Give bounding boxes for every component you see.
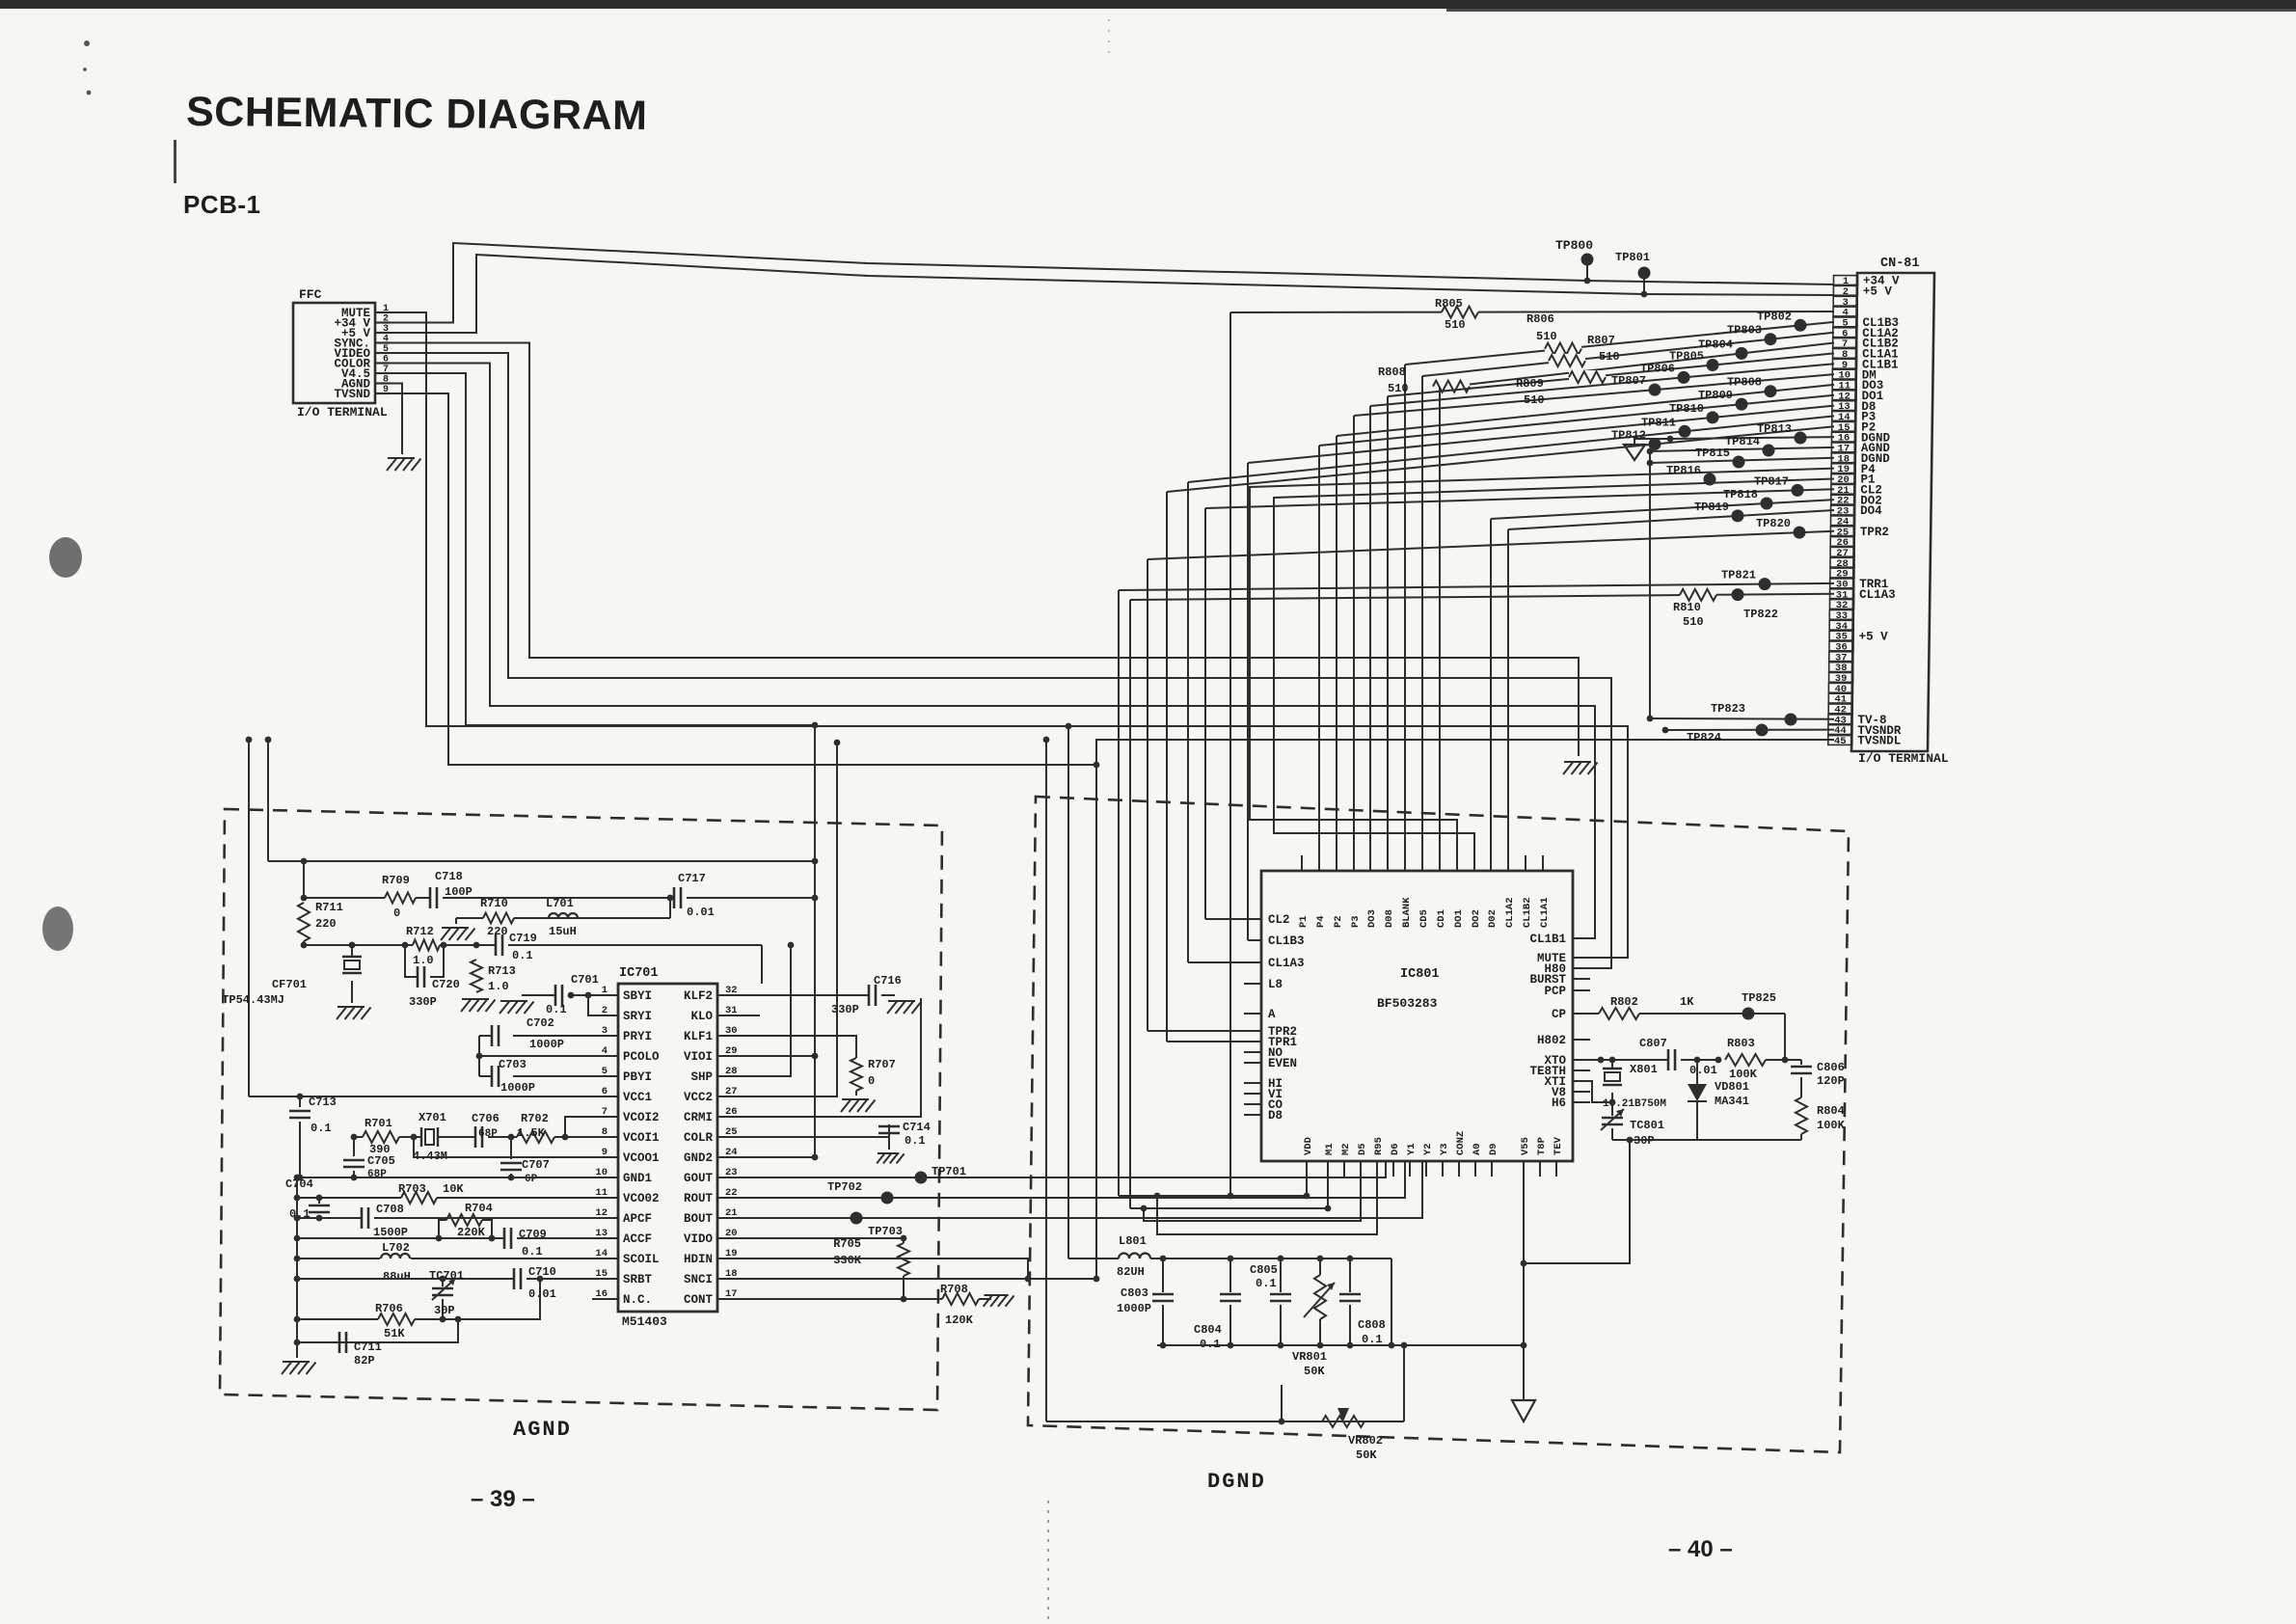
svg-text:0.01: 0.01 [1689, 1064, 1717, 1077]
svg-text:R809: R809 [1516, 377, 1544, 391]
svg-text:R703: R703 [398, 1182, 426, 1196]
svg-text:TP703: TP703 [868, 1225, 903, 1238]
capacitor C808 0.1 [1339, 1259, 1386, 1346]
wire CN-81 pin 30 net TRR1 [1119, 578, 1834, 1196]
svg-text:KLO: KLO [690, 1010, 713, 1023]
inductor L701 15uH [546, 897, 578, 938]
crystal X701 4.43M [413, 1111, 447, 1163]
wire vertical DGND SNCI feed [1095, 765, 1097, 1279]
svg-text:M2: M2 [1340, 1143, 1352, 1155]
wire AGND top rail [268, 858, 818, 898]
svg-text:CL1B3: CL1B3 [1268, 934, 1305, 948]
svg-text:7: 7 [383, 365, 389, 375]
wire pin9 VCOO1 [414, 1137, 618, 1157]
capacitor C804 0.1 [1194, 1259, 1241, 1351]
svg-text:APCF: APCF [623, 1212, 652, 1226]
test point TP811 [1641, 416, 1676, 429]
inductor L702 88uH [380, 1241, 411, 1284]
svg-text:TP815: TP815 [1695, 447, 1730, 460]
resistor R802 1K (CP line) [1573, 995, 1785, 1019]
resistor R808 510 [1378, 365, 1409, 395]
ground (FFC AGND pin 8) [387, 384, 421, 472]
svg-text:VCOO1: VCOO1 [623, 1151, 660, 1165]
wire CN-81 pin 23 net DO4 [1508, 509, 1834, 855]
svg-text:TP824: TP824 [1687, 731, 1721, 744]
svg-text:VR801: VR801 [1292, 1350, 1327, 1364]
svg-text:GOUT: GOUT [684, 1172, 714, 1185]
svg-text:D9: D9 [1488, 1143, 1499, 1155]
svg-text:TVSND: TVSND [334, 388, 370, 401]
svg-text:DO3: DO3 [1366, 909, 1378, 928]
svg-text:R705: R705 [833, 1237, 861, 1251]
svg-text:1K: 1K [1680, 995, 1694, 1009]
svg-text:COLR: COLR [684, 1131, 714, 1145]
potentiometer VR801 50K [1292, 1259, 1335, 1378]
svg-text:R806: R806 [1526, 312, 1554, 326]
resistor R806 510 [1526, 312, 1557, 343]
svg-text:330P: 330P [409, 995, 437, 1009]
svg-text:L801: L801 [1119, 1234, 1147, 1248]
wire pin24 GND2 [717, 1156, 815, 1158]
svg-text:P2: P2 [1333, 915, 1344, 928]
capacitor C703 1000P (pin5 PBYI) [479, 1058, 618, 1095]
ground (C714) [877, 1153, 904, 1163]
svg-text:A: A [1268, 1008, 1276, 1021]
svg-text:VIOI: VIOI [684, 1050, 713, 1064]
svg-text:R807: R807 [1587, 334, 1615, 347]
wire IC801 CL1B1 to wrap [1573, 937, 1595, 939]
svg-text:82UH: 82UH [1117, 1265, 1145, 1279]
svg-text:C807: C807 [1639, 1037, 1667, 1050]
svg-text:R702: R702 [521, 1112, 549, 1125]
svg-text:BOUT: BOUT [684, 1212, 714, 1226]
test point TP813 [1757, 422, 1792, 436]
svg-text:D6: D6 [1390, 1143, 1401, 1155]
wire CP to right rail [1784, 1014, 1786, 1060]
svg-text:TC801: TC801 [1630, 1119, 1664, 1132]
svg-text:220: 220 [487, 925, 508, 938]
svg-text:M1: M1 [1324, 1143, 1336, 1155]
test point TP824 [1687, 731, 1721, 744]
svg-text:X801: X801 [1630, 1063, 1658, 1076]
svg-text:C706: C706 [472, 1112, 500, 1125]
svg-text:5: 5 [383, 344, 389, 355]
svg-text:IC801: IC801 [1400, 967, 1440, 982]
svg-text:MA341: MA341 [1715, 1095, 1749, 1108]
svg-text:D08: D08 [1384, 909, 1395, 928]
wire pin25 COLR / C714 [717, 1136, 889, 1138]
wire CN-81 pin 5 net CL1B3 [1405, 319, 1834, 855]
svg-text:TP818: TP818 [1723, 488, 1758, 501]
wire CN-81 pin43 TV-8 [1650, 714, 1834, 726]
potentiometer VR802 50K [1322, 1408, 1383, 1462]
wire MUTE net (FFC pin1 across to IC801) [390, 312, 1628, 958]
svg-text:R802: R802 [1610, 995, 1638, 1009]
svg-text:TP813: TP813 [1757, 422, 1792, 436]
svg-text:SCHEMATIC DIAGRAM: SCHEMATIC DIAGRAM [186, 89, 648, 139]
svg-text:DO4: DO4 [1860, 504, 1882, 518]
ground (R708) [984, 1295, 1014, 1307]
ground triangle (DGND) [1512, 1161, 1535, 1421]
svg-text:CL2: CL2 [1268, 913, 1290, 927]
svg-text:SCOIL: SCOIL [623, 1253, 660, 1266]
svg-text:1000P: 1000P [529, 1038, 564, 1051]
svg-text:TP702: TP702 [827, 1180, 862, 1194]
svg-text:HDIN: HDIN [684, 1253, 713, 1266]
capacitor C701 0.1 (pin1 SBYI) [535, 973, 618, 1016]
resistor R710 220 [480, 897, 514, 938]
wire DGND branch to arrow [1634, 439, 1670, 445]
svg-text:C709: C709 [519, 1228, 547, 1241]
svg-text:TP803: TP803 [1727, 324, 1762, 338]
wire right components bottom rail [1521, 1137, 1801, 1267]
wire CN-81 pin 12 net DO1 [1319, 395, 1834, 855]
svg-text:0.1: 0.1 [512, 949, 533, 962]
wire pin16 N.C. stub [592, 1298, 618, 1300]
test point TP800 [1555, 238, 1594, 284]
page fold mark (top) [1108, 19, 1110, 58]
svg-text:6P: 6P [525, 1174, 538, 1185]
svg-text:X701: X701 [419, 1111, 446, 1124]
wire CN-81 pin 9 net CL1B1 [1370, 364, 1834, 855]
svg-text:TP825: TP825 [1742, 991, 1776, 1005]
svg-text:R808: R808 [1378, 365, 1406, 379]
svg-text:4: 4 [383, 335, 389, 345]
svg-text:9: 9 [383, 385, 389, 395]
test point TP808 [1727, 376, 1762, 390]
svg-text:Y2: Y2 [1422, 1143, 1434, 1155]
svg-text:TC701: TC701 [429, 1269, 464, 1283]
svg-text:CL1A3: CL1A3 [1859, 588, 1896, 602]
svg-text:120K: 120K [945, 1313, 974, 1327]
svg-text:C803: C803 [1121, 1286, 1148, 1300]
svg-text:EVEN: EVEN [1268, 1057, 1297, 1070]
svg-text:R707: R707 [868, 1058, 896, 1071]
svg-text:0.1: 0.1 [311, 1122, 332, 1135]
wire pin4 PCOLO [476, 1053, 618, 1060]
inductor L801 82UH [1068, 1234, 1150, 1279]
svg-text:330K: 330K [833, 1254, 862, 1267]
svg-text:0.1: 0.1 [905, 1134, 926, 1148]
connector FFC (I/O TERMINAL) [293, 287, 390, 420]
svg-text:BLANK: BLANK [1401, 897, 1413, 928]
ground (AGND left rail) [282, 1362, 316, 1374]
svg-text:R713: R713 [488, 964, 516, 978]
capacitor C803 1000P [1117, 1259, 1174, 1345]
AGND dashed boundary box [220, 809, 942, 1410]
wire pin13 ACCF line [294, 1235, 618, 1242]
wire +5V net (FFC pin3 to CN-81 pin2) [390, 255, 1834, 333]
svg-text:AGND: AGND [513, 1418, 572, 1442]
ground (C716) [887, 1001, 922, 1014]
ground arrow DGND [1624, 445, 1645, 460]
capacitor C713 0.1 [289, 1096, 337, 1180]
wire IC801 H80 to wrap [1573, 967, 1611, 969]
DGND dashed boundary box [1028, 797, 1849, 1452]
wire CN-81 pin4 deep vertical [1228, 312, 1234, 1199]
svg-text:DO1: DO1 [1453, 909, 1465, 928]
svg-text:510: 510 [1388, 382, 1409, 395]
svg-text:0.1: 0.1 [546, 1003, 567, 1016]
wire IC801 MUTE to wrap [1573, 957, 1628, 959]
wire R712/C719 line [301, 942, 762, 984]
resistor R702 1.5K [517, 1112, 554, 1144]
svg-text:C808: C808 [1358, 1318, 1386, 1332]
ground (R710 left) [441, 928, 475, 940]
svg-text:R711: R711 [315, 901, 343, 914]
ground (CF701) [337, 1007, 371, 1019]
svg-text:M51403: M51403 [622, 1314, 667, 1329]
wire COLOR net (FFC pin6 wrap to IC801 CL1B1) [390, 364, 1595, 939]
wire CN-81 pin19 P4 (jog route) [1250, 469, 1834, 855]
svg-text:100K: 100K [1729, 1068, 1758, 1081]
svg-text:+5 V: +5 V [1859, 630, 1889, 643]
svg-text:C704: C704 [285, 1177, 313, 1191]
svg-text:TP814: TP814 [1725, 435, 1760, 448]
svg-text:1.0: 1.0 [488, 980, 509, 993]
capacitor C702 1000P (pin3 PRYI) [479, 1016, 618, 1051]
svg-text:CONT: CONT [684, 1293, 714, 1307]
svg-text:1000P: 1000P [500, 1081, 535, 1095]
wire XTO line [1573, 1057, 1668, 1064]
wire pin2 SRYI [585, 992, 618, 1015]
svg-text:30P: 30P [434, 1304, 455, 1317]
wire SYNC net (FFC pin4) [390, 343, 1579, 757]
svg-text:Y3: Y3 [1439, 1143, 1450, 1155]
svg-text:8: 8 [383, 375, 389, 386]
test point TP825 [1742, 991, 1776, 1020]
svg-text:H802: H802 [1537, 1034, 1566, 1047]
wire TVSND net (FFC pin9 to CN-81 pin45) [390, 393, 1834, 768]
svg-text:C718: C718 [435, 870, 463, 883]
svg-text:VDD: VDD [1303, 1137, 1314, 1155]
svg-text:10K: 10K [443, 1182, 464, 1196]
svg-text:VCC2: VCC2 [684, 1091, 713, 1104]
wire V4.5 net (FFC pin7 into AGND block) [390, 373, 818, 728]
test point TP817 [1754, 474, 1789, 488]
test point TP806 [1640, 362, 1675, 375]
test point TP812 [1611, 429, 1646, 443]
svg-text:D8: D8 [1268, 1109, 1283, 1123]
wire CN-81 pin 15 net P2 [1167, 426, 1834, 1042]
capacitor C706 68P [472, 1112, 500, 1148]
op-amp IC701 M51403 (chroma IC) [595, 966, 737, 1329]
svg-text:SRBT: SRBT [623, 1273, 653, 1286]
wire vertical feed into AGND left (node B) [246, 737, 253, 1096]
svg-text:TP802: TP802 [1757, 310, 1792, 323]
svg-text:PCP: PCP [1544, 985, 1566, 998]
test point TP820 [1756, 517, 1791, 530]
wire pin12 APCF / C708 line [294, 1215, 618, 1222]
svg-text:C719: C719 [509, 932, 537, 945]
svg-text:1000P: 1000P [1117, 1302, 1151, 1315]
svg-text:CL1B2: CL1B2 [1522, 897, 1533, 928]
svg-text:100K: 100K [1817, 1119, 1846, 1132]
svg-text:C707: C707 [522, 1158, 550, 1172]
svg-text:0: 0 [393, 907, 400, 920]
wire XTI jog [1573, 1081, 1615, 1105]
svg-text:KLF1: KLF1 [684, 1030, 713, 1043]
wire pin7 VCOI2 [562, 1117, 618, 1140]
resistor R711 220 (vertical) [298, 901, 343, 945]
svg-text:P4: P4 [1315, 915, 1327, 928]
svg-text:0.1: 0.1 [522, 1245, 543, 1259]
capacitor C714 0.1 [878, 1121, 931, 1150]
svg-text:1.5K: 1.5K [517, 1126, 546, 1140]
svg-text:45: 45 [1834, 736, 1847, 747]
svg-text:TP54.43MJ: TP54.43MJ [222, 993, 284, 1007]
svg-text:50K: 50K [1304, 1365, 1325, 1378]
wire pin18 SNCI [717, 1276, 1099, 1283]
svg-text:68P: 68P [478, 1128, 498, 1140]
test point TP803 [1727, 324, 1762, 338]
svg-text:TP816: TP816 [1666, 464, 1701, 477]
svg-text:D02: D02 [1487, 909, 1499, 928]
wire pin21 BOUT to IC801 [717, 1161, 1422, 1218]
svg-text:0.01: 0.01 [528, 1287, 556, 1301]
svg-text:Y1: Y1 [1406, 1143, 1418, 1155]
wire pin31 KLO stub [717, 1015, 760, 1016]
wire pin8 VCOI1 line [351, 1134, 618, 1141]
svg-text:VCOI2: VCOI2 [623, 1111, 660, 1124]
svg-text:TP820: TP820 [1756, 517, 1791, 530]
resistor R804 100K (vertical) [1796, 1097, 1846, 1140]
svg-text:+5 V: +5 V [1863, 285, 1893, 299]
svg-text:SBYI: SBYI [623, 989, 652, 1003]
wire vertical feed to AGND top rail [265, 737, 272, 861]
svg-text:VCC1: VCC1 [623, 1091, 652, 1104]
svg-text:510: 510 [1683, 615, 1704, 629]
svg-text:TP822: TP822 [1743, 608, 1778, 621]
svg-text:BF503283: BF503283 [1377, 996, 1438, 1011]
capacitor C707 6P [500, 1137, 550, 1185]
wire DGND bottom-left bus 2 [1130, 600, 1331, 1211]
svg-text:120P: 120P [1817, 1074, 1845, 1088]
wire rail joining pins 3-5 [478, 1036, 480, 1076]
capacitor C708 1500P [362, 1203, 408, 1239]
capacitor C720 330P (parallel with R712) [405, 945, 460, 1009]
resistor R809 510 [1516, 377, 1545, 407]
wire DGND bottom bus 3 [1141, 1177, 1361, 1221]
svg-text:R708: R708 [940, 1283, 968, 1296]
wire AGND/DGND vertical (CN-81 pins 17/18) [1647, 448, 1654, 722]
wire CN-81 pin 25 net TPR2 [1148, 527, 1834, 1031]
svg-text:6: 6 [383, 355, 389, 365]
svg-text:C806: C806 [1817, 1061, 1845, 1074]
svg-text:CONZ: CONZ [1455, 1131, 1467, 1155]
test point TP801 [1615, 251, 1651, 297]
svg-text:CF701: CF701 [272, 978, 307, 991]
svg-text:SRYI: SRYI [623, 1010, 652, 1023]
svg-text:CRMI: CRMI [684, 1111, 713, 1124]
svg-text:R704: R704 [465, 1202, 493, 1215]
svg-text:CL1A3: CL1A3 [1268, 957, 1305, 970]
ground (C701) [500, 995, 535, 1014]
resistor R712 1.0 [406, 925, 440, 967]
svg-text:IC701: IC701 [619, 966, 659, 981]
svg-text:L8: L8 [1268, 978, 1283, 991]
resistor R709 0 [382, 874, 416, 920]
wire CN-81 pin 13 net D8 [1248, 406, 1834, 940]
wire R709/C718/C717 line [301, 895, 819, 902]
wire pin14 SCOIL line [294, 1256, 618, 1262]
ground (R707) [841, 1099, 876, 1112]
svg-text:CD5: CD5 [1418, 909, 1430, 928]
svg-text:510: 510 [1445, 318, 1466, 332]
svg-text:TP821: TP821 [1721, 569, 1756, 582]
svg-text:PBYI: PBYI [623, 1070, 652, 1084]
svg-text:TPR2: TPR2 [1860, 526, 1889, 539]
svg-text:C711: C711 [354, 1340, 382, 1354]
svg-text:L702: L702 [382, 1241, 410, 1255]
capacitor C711 82P line [294, 1316, 462, 1367]
crystal X801 10.21B750M [1603, 1060, 1666, 1110]
svg-text:– 40 –: – 40 – [1668, 1536, 1733, 1562]
svg-text:1500P: 1500P [373, 1226, 408, 1239]
svg-text:R712: R712 [406, 925, 434, 938]
svg-text:TP808: TP808 [1727, 376, 1762, 390]
page fold mark (bottom) [1047, 1501, 1049, 1624]
svg-text:TP809: TP809 [1698, 389, 1733, 402]
svg-text:R804: R804 [1817, 1104, 1845, 1118]
svg-text:51K: 51K [384, 1327, 405, 1340]
svg-text:R709: R709 [382, 874, 410, 887]
wire CN-81 pin 8 net CL1A1 [1388, 353, 1834, 855]
svg-text:TVSNDL: TVSNDL [1857, 735, 1901, 748]
wire pin30 KLF1 to R707 [717, 1036, 856, 1058]
capacitor C718 100P [430, 870, 473, 908]
svg-text:C710: C710 [528, 1265, 556, 1279]
test point TP701 [915, 1165, 967, 1184]
svg-text:100P: 100P [445, 885, 473, 899]
wire DGND bottom-left bus 1 [1119, 590, 1310, 1199]
wire R710/L701 line [456, 898, 670, 924]
resistor R805 510 [1435, 297, 1466, 332]
wire pin27 VCC2 [717, 740, 840, 1096]
test point TP807 [1611, 374, 1646, 388]
svg-text:P3: P3 [1350, 915, 1362, 928]
svg-text:KLF2: KLF2 [684, 989, 713, 1003]
diode VD801 MA341 [1688, 1057, 1749, 1140]
capacitor C805 0.1 [1250, 1259, 1291, 1345]
svg-text:510: 510 [1524, 393, 1545, 407]
wire pin10 GND1 rail [294, 1175, 618, 1181]
test point TP815 [1695, 447, 1730, 460]
wire CN-81 pin 22 net DO2 [1491, 498, 1834, 856]
svg-text:TP800: TP800 [1555, 238, 1593, 253]
svg-text:V55: V55 [1520, 1137, 1531, 1155]
svg-text:R803: R803 [1727, 1037, 1755, 1050]
svg-text:3: 3 [383, 324, 389, 335]
svg-text:TEV: TEV [1553, 1136, 1564, 1155]
svg-text:N.C.: N.C. [623, 1293, 652, 1307]
wire VR802 line [1046, 1345, 1404, 1424]
svg-text:68P: 68P [367, 1169, 387, 1180]
svg-text:R95: R95 [1373, 1137, 1385, 1155]
svg-text:TP805: TP805 [1669, 350, 1704, 364]
svg-text:0.1: 0.1 [1256, 1277, 1277, 1290]
wire CN-81 pin16 DGND [1667, 432, 1834, 445]
wire DGND cap rail bottom [1157, 1342, 1524, 1349]
svg-text:C805: C805 [1250, 1263, 1278, 1277]
svg-text:CL1B1: CL1B1 [1529, 933, 1566, 946]
wire CN-81 pin 11 net DO3 [1337, 385, 1834, 855]
svg-text:TP812: TP812 [1611, 429, 1646, 443]
test point TP805 [1669, 350, 1704, 364]
trimmer capacitor TC801 30P [1601, 1102, 1664, 1148]
test point TP821 [1721, 569, 1756, 582]
svg-text:50K: 50K [1356, 1448, 1377, 1462]
